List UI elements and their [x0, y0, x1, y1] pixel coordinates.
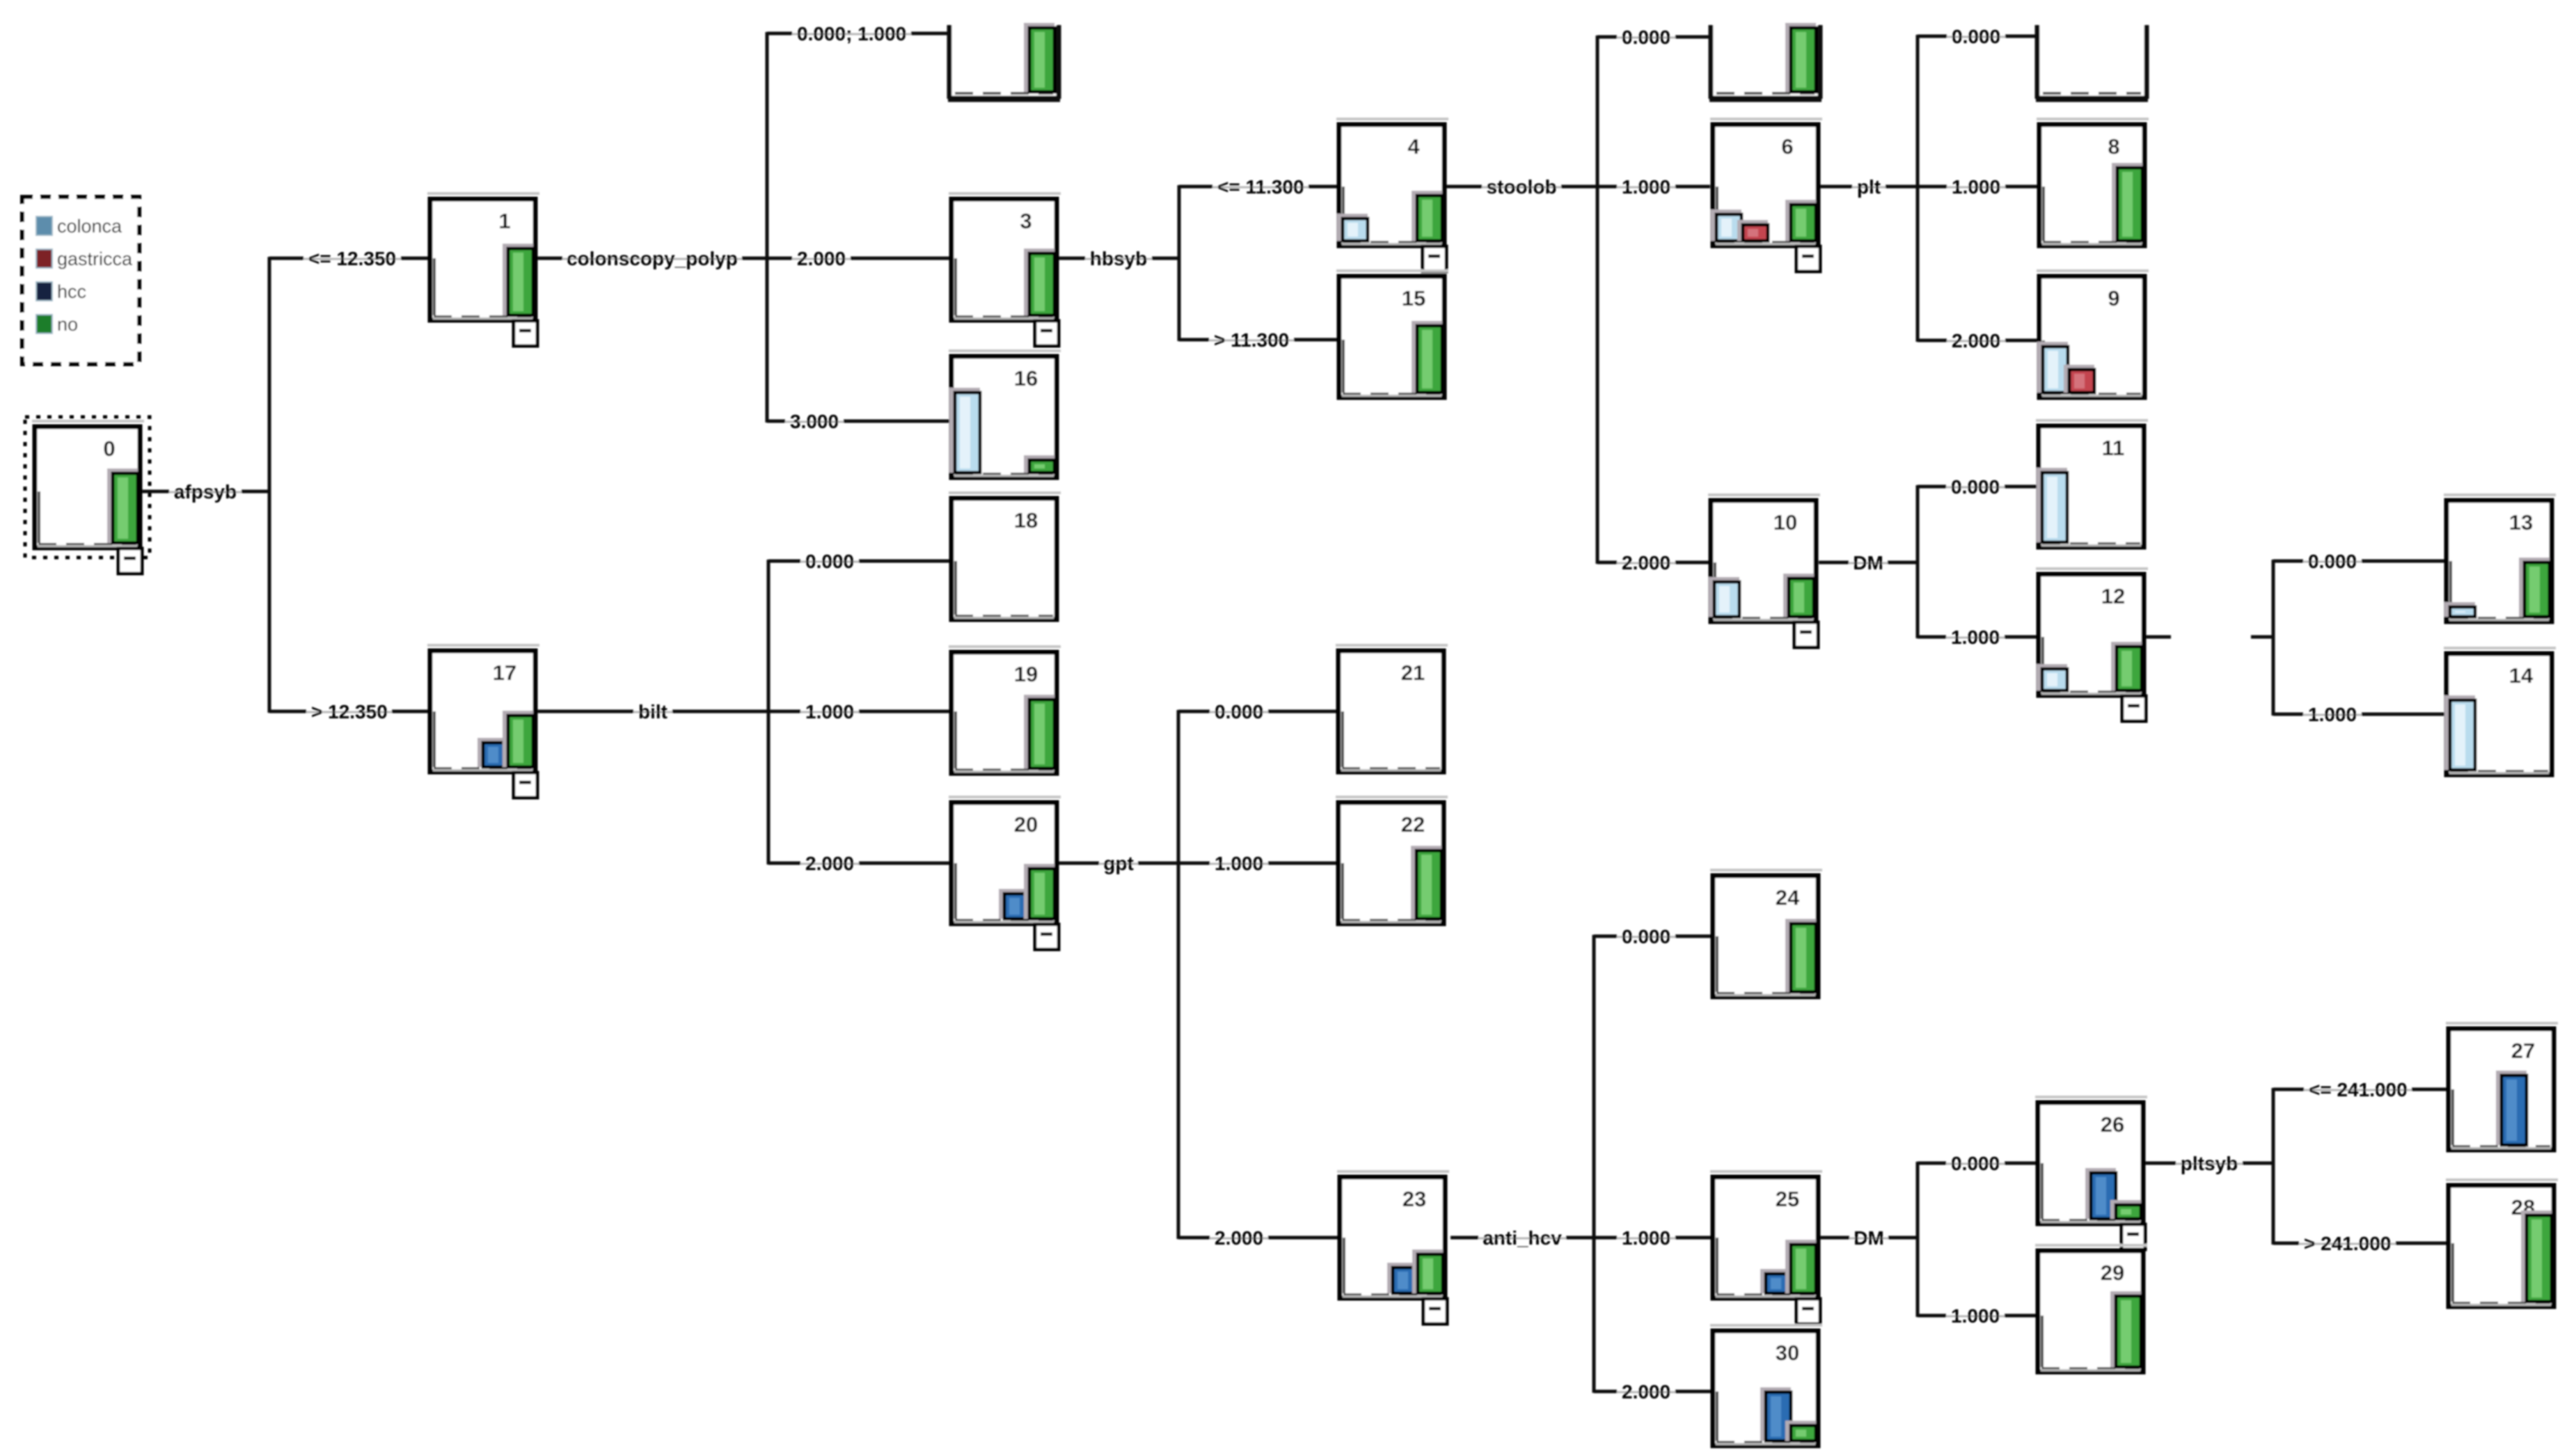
edge hbsyb — [1059, 248, 1179, 269]
legend item colonca — [36, 216, 123, 237]
wire gpt branch vertical — [1177, 710, 1180, 1239]
svg-text:DM: DM — [1854, 1227, 1884, 1249]
svg-text:15: 15 — [1402, 286, 1425, 310]
svg-text:anti_hcv: anti_hcv — [1483, 1227, 1562, 1249]
node 25 — [1710, 1170, 1822, 1324]
edge afpsyb — [142, 481, 269, 503]
edge hbsyb > 11.300 — [1179, 329, 1337, 351]
svg-text:24: 24 — [1776, 885, 1800, 910]
node 29 — [2035, 1244, 2147, 1372]
svg-text:2.000: 2.000 — [1622, 1381, 1670, 1403]
edge colonscopy 2.000 — [767, 248, 949, 269]
node 30 (cut bottom) — [1710, 1324, 1822, 1446]
node 24 — [1710, 869, 1822, 997]
svg-text:3.000: 3.000 — [790, 411, 839, 432]
svg-text:1: 1 — [498, 209, 510, 233]
svg-text:hcc: hcc — [57, 281, 86, 302]
node 23 — [1337, 1170, 1449, 1324]
svg-text:hbsyb: hbsyb — [1090, 248, 1147, 269]
svg-text:2.000: 2.000 — [805, 853, 854, 874]
svg-text:> 12.350: > 12.350 — [311, 701, 388, 723]
svg-text:pltsyb: pltsyb — [2181, 1153, 2238, 1174]
edge node 12 to branch (unlabeled) — [2146, 636, 2273, 639]
node 22 — [1336, 796, 1448, 924]
svg-text:10: 10 — [1773, 510, 1797, 535]
node 11 — [2036, 419, 2148, 547]
svg-text:12: 12 — [2101, 584, 2125, 608]
node 12 — [2036, 567, 2148, 721]
node 27 — [2446, 1022, 2558, 1150]
edge plt 0.000 — [1918, 26, 2037, 47]
edge DM10 1.000 — [1918, 626, 2037, 648]
svg-text:2.000: 2.000 — [797, 248, 846, 269]
svg-text:11: 11 — [2102, 436, 2125, 460]
node 1 — [427, 192, 539, 346]
svg-text:0.000: 0.000 — [1622, 26, 1670, 48]
edge bilt 0.000 — [768, 551, 949, 572]
node 28 — [2446, 1178, 2558, 1307]
edge DM25 1.000 — [1918, 1305, 2036, 1327]
legend box — [22, 197, 139, 364]
svg-text:DM: DM — [1853, 552, 1883, 574]
edge anti_hcv 2.000 — [1594, 1381, 1711, 1403]
svg-text:22: 22 — [1401, 812, 1425, 837]
svg-text:2.000: 2.000 — [1215, 1227, 1263, 1249]
svg-text:afpsyb: afpsyb — [174, 481, 237, 503]
node 15 — [1336, 269, 1448, 397]
edge n12 1.000 — [2273, 704, 2444, 725]
edge gpt 0.000 — [1178, 701, 1336, 723]
wire DM10 branch vertical — [1916, 485, 1920, 638]
svg-text:colonca: colonca — [57, 216, 123, 237]
edge DM (node 10) — [1819, 552, 1918, 574]
edge anti_hcv 1.000 — [1594, 1227, 1711, 1249]
edge colonscopy_polyp — [537, 248, 767, 269]
svg-text:0.000: 0.000 — [2308, 551, 2357, 572]
svg-text:<= 11.300: <= 11.300 — [1217, 176, 1304, 198]
edge anti_hcv — [1451, 1227, 1594, 1249]
svg-text:26: 26 — [2101, 1112, 2124, 1137]
edge pltsyb — [2145, 1153, 2273, 1174]
svg-text:4: 4 — [1407, 134, 1420, 159]
svg-text:23: 23 — [1402, 1187, 1426, 1211]
svg-text:0.000: 0.000 — [805, 551, 854, 572]
svg-text:21: 21 — [1401, 661, 1425, 685]
svg-text:stoolob: stoolob — [1486, 176, 1556, 198]
node 2 (cut) — [948, 23, 1060, 99]
svg-text:2.000: 2.000 — [1622, 552, 1670, 574]
svg-text:gpt: gpt — [1103, 853, 1134, 874]
edge bilt — [537, 701, 768, 723]
edge hbsyb <= 11.300 — [1179, 176, 1337, 198]
edge DM (node 25) — [1820, 1227, 1918, 1249]
svg-text:0.000: 0.000 — [1215, 701, 1263, 723]
svg-text:0.000: 0.000 — [1951, 1153, 2000, 1174]
wire afpsyb branch vertical — [268, 257, 271, 713]
svg-text:0.000; 1.000: 0.000; 1.000 — [797, 23, 906, 45]
svg-text:> 241.000: > 241.000 — [2304, 1233, 2391, 1254]
wire pltsyb branch vertical — [2272, 1088, 2275, 1245]
edge plt 2.000 — [1918, 330, 2037, 352]
wire colonscopy_polyp branch vertical — [766, 32, 769, 423]
svg-text:6: 6 — [1781, 134, 1793, 159]
edge stoolob 1.000 — [1597, 176, 1710, 198]
node 17 — [427, 644, 539, 798]
edge bilt 2.000 — [768, 853, 949, 874]
node 13 — [2444, 494, 2556, 622]
svg-text:colonscopy_polyp: colonscopy_polyp — [567, 248, 738, 269]
node 6 — [1710, 118, 1822, 271]
edge bilt 1.000 — [768, 701, 949, 723]
svg-text:plt: plt — [1857, 176, 1881, 198]
edge stoolob — [1446, 176, 1597, 198]
wire node12 branch vertical — [2272, 560, 2275, 716]
edge gpt 2.000 — [1178, 1227, 1338, 1249]
node 26 — [2035, 1096, 2147, 1249]
node 4 — [1336, 118, 1448, 271]
svg-text:<= 241.000: <= 241.000 — [2309, 1079, 2408, 1100]
svg-text:1.000: 1.000 — [805, 701, 854, 723]
svg-text:25: 25 — [1776, 1187, 1799, 1211]
svg-text:27: 27 — [2511, 1039, 2535, 1063]
legend item hcc — [36, 281, 86, 302]
svg-text:2.000: 2.000 — [1952, 330, 2000, 352]
svg-text:0.000: 0.000 — [1951, 476, 2000, 498]
svg-text:17: 17 — [493, 661, 516, 685]
svg-text:16: 16 — [1014, 366, 1038, 390]
svg-text:1.000: 1.000 — [1622, 1227, 1670, 1249]
edge gpt 1.000 — [1178, 853, 1336, 874]
node 0 (root) — [25, 417, 150, 574]
svg-text:bilt: bilt — [638, 701, 667, 723]
svg-text:9: 9 — [2108, 286, 2119, 310]
svg-text:1.000: 1.000 — [1215, 853, 1263, 874]
edge gpt — [1059, 853, 1178, 874]
node 3 — [949, 192, 1061, 346]
node 19 — [949, 645, 1061, 773]
svg-text:1.000: 1.000 — [1951, 1305, 2000, 1327]
svg-text:1.000: 1.000 — [2308, 704, 2357, 725]
node 18 — [949, 491, 1061, 620]
svg-text:0.000: 0.000 — [1952, 26, 2000, 47]
node 9 — [2037, 269, 2149, 397]
edge stoolob 0.000 — [1597, 26, 1712, 48]
wire bilt branch vertical — [767, 560, 771, 865]
node 16 — [949, 349, 1061, 478]
wire hbsyb branch vertical — [1178, 185, 1181, 341]
edge pltsyb > 241.000 — [2273, 1233, 2447, 1254]
svg-text:> 11.300: > 11.300 — [1214, 329, 1289, 351]
svg-text:18: 18 — [1014, 508, 1038, 532]
svg-text:30: 30 — [1776, 1341, 1799, 1365]
svg-text:<= 12.350: <= 12.350 — [308, 248, 396, 269]
svg-text:13: 13 — [2509, 510, 2533, 535]
node 21 — [1336, 644, 1448, 772]
legend item no — [36, 314, 78, 335]
edge stoolob 2.000 — [1597, 552, 1709, 574]
svg-text:14: 14 — [2509, 663, 2534, 688]
svg-text:19: 19 — [1014, 662, 1038, 686]
svg-text:1.000: 1.000 — [1951, 626, 2000, 648]
legend item gastricca — [36, 248, 133, 269]
svg-text:0.000: 0.000 — [1622, 926, 1670, 947]
wire stoolob branch vertical — [1596, 35, 1599, 564]
edge colonscopy 3.000 — [767, 411, 949, 432]
node 5 (cut) — [1709, 23, 1822, 99]
node 8 — [2037, 118, 2149, 246]
edge DM25 0.000 — [1918, 1153, 2036, 1174]
edge anti_hcv 0.000 — [1594, 926, 1711, 947]
wire plt branch vertical — [1916, 35, 1920, 342]
node 10 — [1708, 494, 1820, 647]
svg-text:1.000: 1.000 — [1622, 176, 1670, 198]
edge afpsyb > 12.350 — [269, 701, 428, 723]
node 7 (cut) — [2036, 25, 2148, 99]
wire anti_hcv branch vertical — [1593, 935, 1596, 1393]
edge DM10 0.000 — [1918, 476, 2037, 498]
node 14 — [2444, 647, 2556, 775]
svg-text:29: 29 — [2101, 1261, 2124, 1285]
edge plt 1.000 — [1918, 176, 2037, 198]
wire DM25 branch vertical — [1916, 1162, 1920, 1317]
edge colonscopy 0.000;1.000 — [767, 23, 949, 45]
svg-text:20: 20 — [1014, 812, 1038, 837]
edge afpsyb <= 12.350 — [269, 248, 428, 269]
svg-text:8: 8 — [2108, 134, 2119, 159]
svg-text:no: no — [57, 314, 78, 335]
edge pltsyb <= 241.000 — [2273, 1079, 2447, 1100]
node 20 — [949, 796, 1061, 949]
svg-text:1.000: 1.000 — [1952, 176, 2000, 198]
svg-text:gastricca: gastricca — [57, 248, 133, 269]
edge plt — [1820, 176, 1918, 198]
edge n12 0.000 — [2273, 551, 2444, 572]
svg-text:0: 0 — [103, 436, 115, 461]
svg-text:3: 3 — [1020, 209, 1032, 233]
